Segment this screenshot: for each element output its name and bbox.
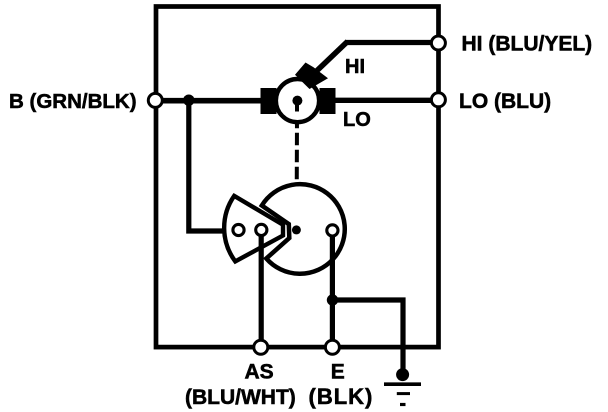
contact circle B xyxy=(256,224,267,235)
rotary center dot xyxy=(292,225,301,234)
wire: wedge contact down to AS terminal xyxy=(259,232,264,345)
contact circle C xyxy=(327,225,338,236)
switch body box xyxy=(156,7,439,348)
svg-text:(BLK): (BLK) xyxy=(309,384,374,409)
movable contact wedge xyxy=(224,196,283,262)
svg-text:HI: HI xyxy=(345,56,365,78)
wire: B terminal to motor left brush xyxy=(160,98,263,104)
blower motor M1 body xyxy=(276,79,319,122)
wire: E junction right and down to ground xyxy=(333,300,404,374)
svg-text:HI (BLU/YEL): HI (BLU/YEL) xyxy=(462,33,593,56)
HI wire horizontal segment xyxy=(345,40,432,45)
motor left brush xyxy=(261,88,277,114)
ground bar 3 xyxy=(400,403,406,406)
junction dot at B branch xyxy=(183,95,194,106)
wire: junction down then right to wedge contact xyxy=(189,100,234,231)
motor center dot xyxy=(292,96,302,106)
motor right brush xyxy=(320,88,336,114)
contact circle A xyxy=(233,224,244,235)
terminal HI xyxy=(431,36,445,50)
wire: right contact down to E junction xyxy=(330,234,335,346)
wire: motor right brush to LO terminal xyxy=(334,98,432,103)
svg-text:E: E xyxy=(331,361,345,384)
terminal E xyxy=(325,340,339,354)
svg-text:(BLU/WHT): (BLU/WHT) xyxy=(185,386,296,409)
E junction dot xyxy=(327,294,338,305)
terminal LO xyxy=(431,93,445,107)
svg-text:AS: AS xyxy=(245,361,274,384)
svg-text:LO: LO xyxy=(343,109,371,131)
dash below motor dot xyxy=(295,104,299,112)
dashed shaft line motor to rotary center xyxy=(295,116,299,226)
ground bar 2 xyxy=(397,392,410,395)
HI wire diagonal segment xyxy=(315,42,348,73)
HI wiper arrowhead xyxy=(295,63,328,90)
terminal AS xyxy=(254,340,268,354)
terminal B xyxy=(148,93,162,107)
ground bar 1 xyxy=(384,382,421,386)
rotary switch body with notch xyxy=(262,184,345,274)
svg-text:LO (BLU): LO (BLU) xyxy=(459,90,551,113)
svg-text:B (GRN/BLK): B (GRN/BLK) xyxy=(9,90,137,113)
ground dot xyxy=(396,368,409,381)
